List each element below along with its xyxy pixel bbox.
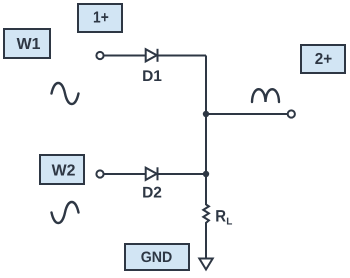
svg-text:2+: 2+: [315, 51, 332, 68]
wire W1 input to diode D1 anode: [104, 55, 207, 57]
callout box W2: [40, 155, 84, 184]
terminal circle W1 input: [96, 52, 103, 59]
svg-text:R: R: [215, 208, 226, 226]
diode D1: [146, 49, 158, 62]
svg-text:D1: D1: [142, 68, 162, 85]
terminal circle W2 input: [96, 170, 103, 177]
terminal circle output 2+: [288, 110, 295, 117]
diode D2: [146, 167, 158, 180]
callout box GND: [125, 244, 189, 270]
waveform symbol rectified output: [252, 89, 279, 102]
svg-text:W1: W1: [17, 36, 41, 53]
svg-text:L: L: [226, 217, 232, 228]
label R_L: [215, 208, 232, 228]
waveform symbol sine at W2 (inverted phase): [52, 202, 79, 223]
callout box 1+: [78, 4, 122, 32]
waveform symbol sine at W1: [52, 83, 79, 104]
callout box W1: [4, 29, 50, 58]
callout box 2+: [301, 45, 345, 73]
junction node at output tap: [203, 111, 209, 117]
resistor R_L: [203, 205, 209, 226]
svg-text:W2: W2: [52, 163, 76, 180]
wire W2 input to junction: [104, 173, 207, 175]
wire vertical bus upper segment (D1 cathode corner to resistor): [205, 56, 207, 206]
junction node at D2 cathode: [203, 171, 209, 177]
svg-text:D2: D2: [142, 184, 162, 201]
wire vertical bus lower segment (resistor to ground): [205, 225, 207, 259]
svg-text:1+: 1+: [93, 10, 109, 27]
ground symbol: [199, 259, 212, 270]
svg-text:GND: GND: [141, 249, 173, 266]
wire output branch to 2+ terminal: [206, 113, 288, 115]
